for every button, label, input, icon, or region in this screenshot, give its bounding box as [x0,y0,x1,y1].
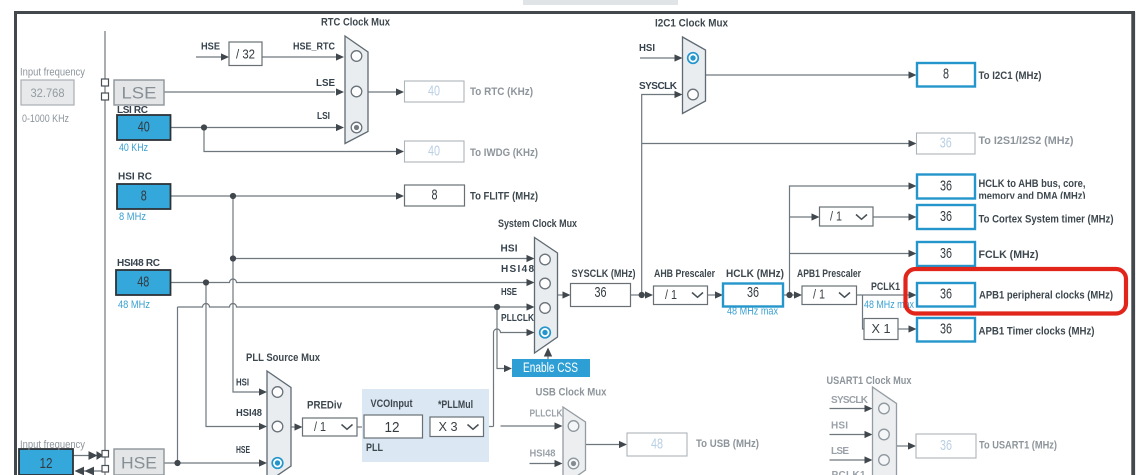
svg-text:LSE: LSE [122,84,157,103]
svg-text:8: 8 [943,66,949,83]
svg-text:48: 48 [651,436,663,453]
svg-text:HSE: HSE [201,42,220,53]
svg-text:36: 36 [940,286,952,303]
svg-text:40: 40 [428,143,440,160]
svg-text:APB1 Prescaler: APB1 Prescaler [797,268,862,280]
svg-text:I2C1 Clock Mux: I2C1 Clock Mux [655,18,729,30]
svg-text:To IWDG (KHz): To IWDG (KHz) [470,147,538,159]
svg-text:SYSCLK: SYSCLK [639,81,678,92]
svg-text:SYSCLK: SYSCLK [831,395,869,406]
svg-text:HSI RC: HSI RC [118,172,152,183]
svg-text:36: 36 [940,208,952,225]
svg-text:/ 1: / 1 [665,288,677,302]
svg-text:FCLK (MHz): FCLK (MHz) [979,249,1039,261]
svg-text:HSE: HSE [236,445,250,456]
svg-text:/ 1: / 1 [813,288,825,302]
svg-text:To USB (MHz): To USB (MHz) [696,438,759,450]
svg-text:8: 8 [141,188,147,205]
svg-text:8: 8 [432,187,438,204]
svg-text:48 MHz max: 48 MHz max [727,306,778,318]
svg-text:VCOInput: VCOInput [371,398,413,410]
svg-text:HSI48: HSI48 [530,449,556,460]
svg-text:40: 40 [138,119,150,136]
svg-text:APB1 peripheral clocks (MHz): APB1 peripheral clocks (MHz) [979,290,1113,302]
svg-text:To USART1 (MHz): To USART1 (MHz) [979,440,1057,452]
svg-text:PLL Source Mux: PLL Source Mux [246,352,321,364]
svg-text:RTC Clock Mux: RTC Clock Mux [321,17,391,29]
svg-text:Input frequency: Input frequency [20,67,85,79]
svg-text:PLLCLK: PLLCLK [530,409,564,420]
svg-text:HSI: HSI [236,378,249,389]
svg-text:HCLK (MHz): HCLK (MHz) [726,268,784,280]
svg-text:36: 36 [940,245,952,262]
svg-text:HSI48: HSI48 [501,264,534,275]
svg-text:36: 36 [747,284,759,301]
svg-text:LSE: LSE [316,78,335,89]
svg-text:36: 36 [940,135,952,152]
svg-text:SYSCLK (MHz): SYSCLK (MHz) [572,268,636,280]
svg-text:/ 1: / 1 [830,210,842,224]
svg-text:To I2S1/I2S2 (MHz): To I2S1/I2S2 (MHz) [979,135,1074,147]
svg-text:36: 36 [595,284,607,301]
svg-text:36: 36 [940,437,952,454]
svg-text:HSI48: HSI48 [236,408,262,419]
svg-text:APB1 Timer clocks (MHz): APB1 Timer clocks (MHz) [979,326,1095,338]
svg-text:48: 48 [137,273,149,290]
svg-text:36: 36 [940,321,952,338]
svg-text:LSI: LSI [317,111,330,122]
svg-text:System Clock Mux: System Clock Mux [498,218,578,230]
svg-text:Input frequency: Input frequency [20,439,85,451]
svg-text:Enable CSS: Enable CSS [523,360,578,375]
svg-text:To Cortex System timer (MHz): To Cortex System timer (MHz) [979,214,1114,226]
svg-text:LSE: LSE [831,446,849,457]
svg-text:To RTC (KHz): To RTC (KHz) [470,86,533,98]
svg-text:To FLITF (MHz): To FLITF (MHz) [470,191,538,203]
svg-text:HSI: HSI [831,421,848,432]
svg-text:36: 36 [940,178,952,195]
svg-text:32.768: 32.768 [31,86,65,100]
svg-text:40 KHz: 40 KHz [119,142,148,154]
svg-text:To I2C1 (MHz): To I2C1 (MHz) [979,70,1042,82]
svg-text:PLL: PLL [366,442,383,454]
svg-text:HSI: HSI [501,244,518,255]
svg-text:12: 12 [385,419,400,436]
svg-text:HSE: HSE [121,454,157,473]
svg-text:48 MHz: 48 MHz [118,299,150,311]
svg-text:HSI48 RC: HSI48 RC [117,258,160,269]
svg-text:USB Clock Mux: USB Clock Mux [536,387,608,399]
svg-text:X 1: X 1 [872,321,891,336]
svg-text:/ 1: / 1 [314,420,326,434]
svg-text:X 3: X 3 [439,420,458,434]
svg-text:/ 32: / 32 [236,47,255,62]
svg-text:HCLK to AHB bus, core,: HCLK to AHB bus, core, [979,178,1086,190]
svg-text:0-1000 KHz: 0-1000 KHz [22,113,69,125]
svg-text:PCLK1: PCLK1 [832,470,866,475]
svg-text:PLLCLK: PLLCLK [501,313,535,324]
svg-text:PCLK1: PCLK1 [871,281,900,293]
svg-text:HSI: HSI [639,43,655,54]
svg-text:LSI RC: LSI RC [117,105,148,116]
svg-text:HSE_RTC: HSE_RTC [293,42,335,53]
svg-text:40: 40 [428,83,440,100]
svg-text:12: 12 [40,455,53,472]
svg-text:PREDiv: PREDiv [307,400,343,412]
svg-text:8 MHz: 8 MHz [119,211,146,223]
svg-text:HSE: HSE [501,287,517,298]
svg-text:USART1 Clock Mux: USART1 Clock Mux [827,375,913,387]
svg-text:AHB Prescaler: AHB Prescaler [654,268,716,280]
svg-text:*PLLMul: *PLLMul [438,399,473,411]
